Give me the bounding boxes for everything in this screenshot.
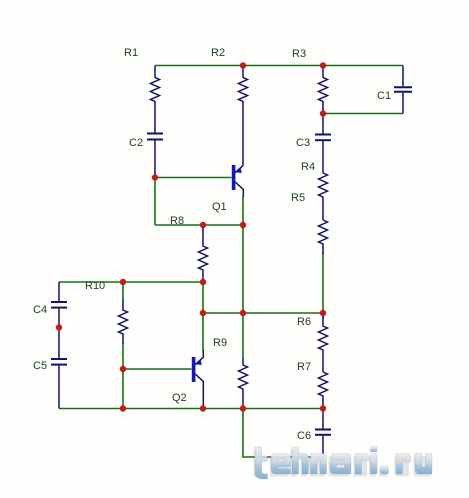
svg-text:R9: R9 [213,337,227,349]
capacitor C4 [51,282,67,328]
resistor R10 [119,300,128,344]
letter i dot [371,447,378,453]
svg-text:R6: R6 [297,316,311,328]
letter r2 [396,454,411,475]
svg-text:C3: C3 [296,137,310,149]
svg-text:Q2: Q2 [172,392,187,404]
svg-text:Q1: Q1 [212,201,227,213]
resistor R4 [319,173,328,220]
svg-text:C4: C4 [33,304,47,316]
node dot bottom rail x323 [320,405,326,411]
node dot Q1 collector rail [240,222,246,228]
node dot bottom rail x243 [240,405,246,411]
wire mid rail y=313 [203,312,323,314]
wire bottom rail y=408.5 [59,408,323,410]
letter u [415,454,432,475]
letter r [355,454,369,475]
svg-text:C6: C6 [297,430,311,442]
node dot bottom rail x203 [200,405,206,411]
watermark letters [255,447,432,480]
wire Q1 base y=177 [155,177,232,179]
resistor R8 [199,225,208,282]
node dot R10 rail left [120,279,126,285]
svg-text:R5: R5 [291,192,305,204]
node dot Q1 base rail [152,174,158,180]
wire R8 rail y=225 [155,224,243,226]
wire left vertical x=155 [154,178,156,226]
resistor R5 [319,220,328,254]
watermark tehnari.ru [254,447,433,480]
wire vertical x=243 node [242,196,244,358]
capacitor C6 [315,409,331,458]
letter t [255,447,268,479]
resistor R7 [319,372,328,409]
wire vertical x=323 below R5 [322,252,324,318]
node dot top R2 [240,62,246,68]
wire Q2 base y=369 [123,368,192,370]
letter h [292,447,309,474]
wire R10 rail y=282 [59,281,203,283]
watermark shadow [254,450,431,477]
svg-text:R4: R4 [301,161,315,173]
node dot mid rail right [320,310,326,316]
letter i stem [371,454,378,475]
capacitor C1 [394,66,412,114]
svg-text:C2: C2 [129,137,143,149]
node dot C4 C5 junction [56,324,62,330]
wire vertical x=123 lower [122,343,124,409]
letter e [271,454,291,475]
svg-text:C5: C5 [33,360,47,372]
svg-text:R3: R3 [292,48,306,60]
node dot Q2 base rail [120,366,126,372]
node dot R3 bottom [320,110,326,116]
svg-text:R10: R10 [85,280,105,292]
capacitor C3 [315,114,331,174]
transistor Q1 [234,165,244,197]
svg-text:R1: R1 [124,47,138,59]
wire vertical x=203 node [202,282,204,351]
resistor R6 [319,313,328,372]
capacitor C5 [51,328,67,409]
node dot bottom rail x123 [120,405,126,411]
wire top rail y=65 from R1 to C1 [155,65,403,67]
svg-text:C1: C1 [377,90,391,102]
svg-text:R7: R7 [297,361,311,373]
resistor R2 [239,66,248,166]
node dot R10 rail right [200,279,206,285]
svg-text:R2: R2 [211,47,225,59]
wire C6 bottom loop y=457 [243,409,324,458]
resistor R3 [319,66,328,114]
resistor R1 [151,66,160,134]
svg-text:R8: R8 [170,215,184,227]
node dot R8 top [200,222,206,228]
node dot mid rail center [240,310,246,316]
wire C1 return y=113 [323,113,403,115]
wire vertical x=123 upper [122,282,124,301]
capacitor C2 [147,134,163,178]
transistor Q2 [194,350,204,409]
node dot mid rail left [200,310,206,316]
letter a [330,454,351,475]
period [381,466,389,474]
node dot top R3 [320,62,326,68]
resistor R9 [239,358,248,409]
letter n [311,454,327,475]
